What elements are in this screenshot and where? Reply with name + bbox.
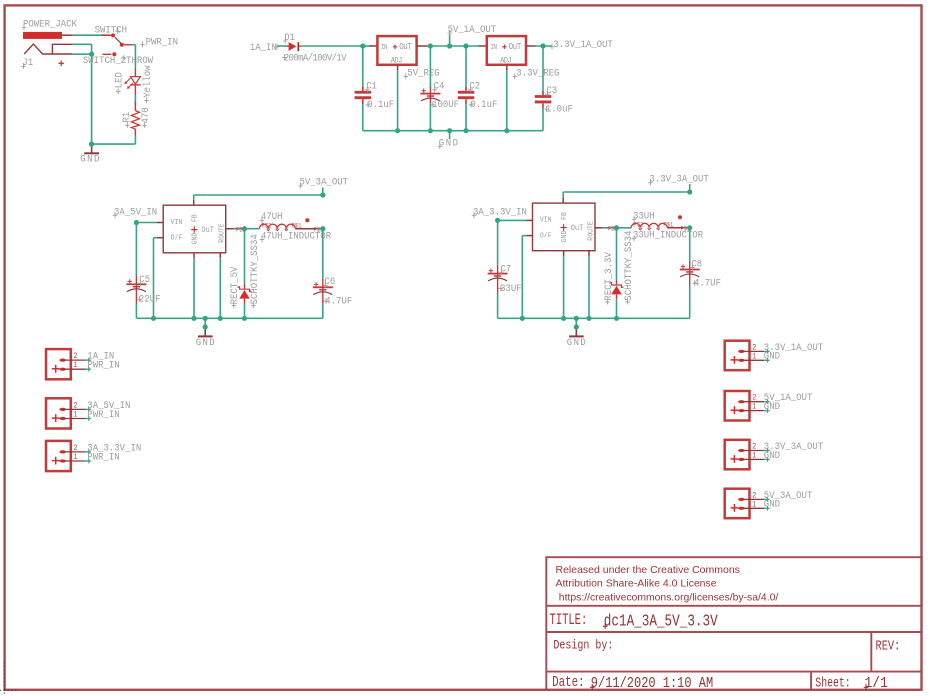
node B junction bbox=[428, 43, 433, 48]
connector J8 5V_3A_OUT bbox=[725, 489, 750, 519]
svg-text:2: 2 bbox=[73, 445, 78, 454]
svg-text:ROUTE: ROUTE bbox=[587, 221, 596, 240]
svg-text:4.7UF: 4.7UF bbox=[325, 295, 352, 307]
svg-text:ROUTE: ROUTE bbox=[218, 223, 227, 242]
op-amp U2 3.3V regulator box bbox=[487, 36, 526, 65]
wire jack sleeve top bbox=[73, 43, 92, 45]
svg-text:OuT: OuT bbox=[201, 227, 214, 236]
wire C2 column top bbox=[465, 46, 467, 87]
svg-text:O/F: O/F bbox=[171, 234, 183, 243]
node 3.3V_1A_OUT junction bbox=[540, 43, 545, 48]
svg-text:IN: IN bbox=[490, 44, 497, 52]
transistor U3 buck pin VIN bbox=[157, 222, 163, 224]
wire U3 gnd to rail bbox=[193, 258, 195, 318]
svg-text:1: 1 bbox=[752, 452, 757, 461]
svg-text:Design by:: Design by: bbox=[553, 640, 613, 653]
svg-text:9/11/2020 1:10 AM: 9/11/2020 1:10 AM bbox=[591, 676, 713, 693]
jack plus polarity mark bbox=[59, 61, 64, 66]
wire onoff to rail bbox=[154, 237, 158, 239]
wire C3 column top bbox=[542, 46, 544, 91]
wire U4 route to rail bbox=[588, 256, 590, 318]
node U4 onoff rail junction bbox=[520, 316, 525, 321]
svg-text:ADJ: ADJ bbox=[500, 57, 511, 66]
connector J7 3.3V_3A_OUT bbox=[725, 440, 750, 470]
svg-text:P$2: P$2 bbox=[633, 221, 643, 229]
LED arrows bbox=[125, 78, 133, 88]
ground symbol GND section1 bbox=[91, 147, 93, 154]
svg-text:RECT_3.3V: RECT_3.3V bbox=[602, 252, 614, 301]
capacitor C1 bbox=[362, 87, 364, 91]
svg-text:2: 2 bbox=[73, 353, 78, 362]
svg-text:GND: GND bbox=[764, 449, 780, 461]
node gnd rail junction section4 bbox=[574, 316, 579, 321]
LED D2 symbol bbox=[134, 68, 136, 77]
power jack J1 pin bbox=[62, 34, 73, 36]
svg-text:SCHOTTKY_SS34: SCHOTTKY_SS34 bbox=[622, 230, 634, 300]
node GND rail junction bbox=[447, 128, 452, 133]
svg-text:PWR_IN: PWR_IN bbox=[87, 451, 119, 463]
op-amp U1 5V regulator box bbox=[377, 36, 416, 65]
wire switch to pwr_in corner bbox=[132, 44, 136, 46]
svg-text:Released under the Creative Co: Released under the Creative Commons bbox=[556, 564, 740, 576]
svg-text:GND: GND bbox=[764, 498, 780, 510]
connector J3 3A_5V_IN bbox=[46, 398, 71, 428]
capacitor C7 polarized bbox=[497, 265, 499, 293]
svg-text:dc1A_3A_5V_3.3V: dc1A_3A_5V_3.3V bbox=[604, 613, 718, 631]
svg-text:0.1uF: 0.1uF bbox=[470, 98, 497, 110]
wire R1 to gnd rail bbox=[134, 136, 136, 145]
svg-text:Attribution Share-Alike 4.0 Li: Attribution Share-Alike 4.0 License bbox=[556, 578, 717, 590]
wire in to U4 VIN bbox=[498, 219, 527, 221]
svg-text:Sheet:: Sheet: bbox=[815, 675, 850, 691]
svg-text:SCHOTTKY_SS34: SCHOTTKY_SS34 bbox=[248, 234, 260, 304]
wire pwr_in down to LED bbox=[134, 45, 136, 68]
svg-text:5V_1A_OUT: 5V_1A_OUT bbox=[448, 23, 497, 35]
node gnd rail junction section3 bbox=[203, 316, 208, 321]
svg-text:2: 2 bbox=[752, 492, 757, 501]
svg-text:33UH_INDUCTOR: 33UH_INDUCTOR bbox=[633, 229, 703, 241]
svg-text:GND: GND bbox=[764, 400, 780, 412]
wire U3 route to rail bbox=[219, 258, 221, 318]
svg-text:REV:: REV: bbox=[876, 638, 901, 654]
svg-text:2: 2 bbox=[752, 443, 757, 452]
svg-text:5V_REG: 5V_REG bbox=[407, 67, 439, 79]
transistor U4 pin OUT bbox=[595, 227, 603, 229]
svg-text:200mA/100V/1V: 200mA/100V/1V bbox=[284, 52, 347, 64]
wire jack bottom bbox=[73, 53, 92, 55]
svg-text:SWITCH: SWITCH bbox=[95, 24, 127, 36]
svg-text:OuT: OuT bbox=[399, 43, 412, 53]
svg-text:GND: GND bbox=[764, 350, 780, 362]
svg-text:PWR_IN: PWR_IN bbox=[146, 36, 178, 48]
ground symbol GND section4 bbox=[575, 327, 577, 336]
svg-text:https://creativecommons.org/li: https://creativecommons.org/licenses/by-… bbox=[559, 593, 779, 604]
svg-text:2: 2 bbox=[752, 394, 757, 403]
wire node A to U1 bbox=[363, 45, 371, 47]
node U4 route rail junction bbox=[586, 316, 591, 321]
svg-text:22UF: 22UF bbox=[139, 293, 161, 305]
svg-text:P$2: P$2 bbox=[262, 222, 272, 230]
wire C5 column bottom bbox=[135, 304, 137, 319]
power jack J1 barrel bbox=[23, 32, 62, 39]
op-amp U1 pin OUT bbox=[417, 45, 428, 47]
op-amp U1 5V regulator pin IN bbox=[370, 45, 378, 47]
svg-text:1: 1 bbox=[73, 362, 78, 371]
svg-text:1.0uF: 1.0uF bbox=[546, 103, 573, 115]
wire diode to rail 2 bbox=[616, 299, 618, 318]
transistor U3 buck box bbox=[163, 205, 226, 253]
wire jack sleeve right bbox=[91, 44, 93, 54]
svg-text:3A_5V_IN: 3A_5V_IN bbox=[114, 206, 157, 218]
transistor U3 pin GND bbox=[193, 253, 195, 258]
node switch node junction 2 bbox=[614, 225, 619, 230]
svg-text:2: 2 bbox=[752, 344, 757, 353]
svg-text:PWR_IN: PWR_IN bbox=[87, 359, 119, 371]
wire U2 ADJ to rail bbox=[506, 70, 508, 130]
svg-text:4.7UF: 4.7UF bbox=[694, 277, 721, 289]
wire 1A_IN to D1 bbox=[278, 45, 288, 47]
node U3 gnd rail junction bbox=[191, 316, 196, 321]
transistor U3 pin ONOFF bbox=[157, 237, 163, 239]
power jack J1 contact outline bbox=[24, 44, 72, 54]
svg-text:1: 1 bbox=[752, 501, 757, 510]
wire diode column top 2 bbox=[616, 228, 618, 280]
transistor U4 pin FB bbox=[562, 198, 564, 204]
wire C1 column bottom bbox=[362, 104, 364, 131]
node gnd corner junction bbox=[89, 142, 94, 147]
wire C1 column top bbox=[362, 46, 364, 87]
svg-text:470: 470 bbox=[139, 107, 151, 123]
wire gnd sym stub section4 bbox=[575, 318, 577, 327]
svg-text:3A_3.3V_IN: 3A_3.3V_IN bbox=[473, 206, 527, 218]
svg-text:33UF: 33UF bbox=[500, 282, 522, 294]
op-amp U2 pin ADJ bbox=[506, 65, 508, 71]
svg-text:0.1uF: 0.1uF bbox=[367, 98, 394, 110]
node out column junction 2 bbox=[687, 225, 692, 230]
capacitor C8 polarized bbox=[689, 261, 691, 286]
wire U4 FB up and across bbox=[562, 192, 564, 198]
svg-text:O/F: O/F bbox=[540, 232, 552, 241]
inductor unconnected pin dot 2 bbox=[678, 215, 682, 219]
node C junction bbox=[463, 43, 468, 48]
transistor U3 pin FB bbox=[193, 200, 195, 206]
switch S1 lever bbox=[115, 37, 121, 43]
wire FB up and across bbox=[193, 195, 195, 200]
transistor U4 pin GND bbox=[563, 251, 565, 257]
capacitor C3 bbox=[542, 91, 544, 95]
svg-text:5V_3A_OUT: 5V_3A_OUT bbox=[300, 176, 349, 188]
wire U4 onoff to rail bbox=[522, 235, 526, 237]
wire sleeve to gnd corner bbox=[91, 54, 93, 144]
svg-text:FB: FB bbox=[561, 212, 570, 220]
transistor U4 pin ONOFF bbox=[527, 235, 533, 237]
node onoff rail junction bbox=[151, 316, 156, 321]
op-amp U1 pin ADJ bbox=[397, 65, 399, 71]
wire gnd rail section3 bbox=[136, 317, 322, 319]
svg-text:IN: IN bbox=[381, 44, 388, 52]
node C2 rail junction bbox=[463, 128, 468, 133]
node ADJ2 rail junction bbox=[504, 128, 509, 133]
wire stub 5V_3A_OUT label bbox=[322, 188, 324, 196]
svg-text:1: 1 bbox=[73, 411, 78, 420]
wire gnd rail section2 bbox=[363, 130, 543, 132]
node diode rail junction 2 bbox=[614, 316, 619, 321]
node 5V_3A_OUT junction top bbox=[320, 192, 325, 197]
svg-text:OuT: OuT bbox=[509, 43, 522, 53]
svg-text:100UF: 100UF bbox=[432, 98, 459, 110]
svg-text:1/1: 1/1 bbox=[865, 675, 888, 692]
wire U1 ADJ to rail bbox=[397, 70, 399, 130]
svg-text:3.3V_1A_OUT: 3.3V_1A_OUT bbox=[554, 38, 613, 50]
node 3A_3.3V_IN junction bbox=[495, 218, 500, 223]
svg-text:TITLE:: TITLE: bbox=[550, 612, 588, 630]
node 3.3V_3A_OUT junction top bbox=[687, 189, 692, 194]
wire U4 out to inductor bbox=[603, 227, 631, 229]
node U4 gnd rail junction bbox=[561, 316, 566, 321]
wire in to U3 VIN bbox=[136, 222, 157, 224]
node 5V_1A_OUT junction bbox=[447, 43, 452, 48]
svg-text:GND: GND bbox=[561, 231, 570, 243]
svg-text:VIN: VIN bbox=[171, 218, 183, 227]
wire C2 column bottom bbox=[465, 104, 467, 131]
wire GND label stub bbox=[449, 131, 451, 139]
svg-text:1: 1 bbox=[752, 353, 757, 362]
switch S1 lower throw bbox=[102, 53, 111, 55]
svg-text:OuT: OuT bbox=[571, 225, 584, 234]
svg-text:1A_IN: 1A_IN bbox=[250, 41, 277, 53]
wire LED to R1 bbox=[134, 95, 136, 101]
wire C3 column bottom bbox=[542, 108, 544, 131]
transistor U3 pin OUT bbox=[226, 228, 234, 230]
wire diode column top bbox=[244, 229, 246, 284]
svg-text:3.3V_3A_OUT: 3.3V_3A_OUT bbox=[650, 173, 709, 185]
svg-text:R1: R1 bbox=[121, 112, 133, 123]
wire diode to rail bbox=[244, 304, 246, 319]
node U3 route rail junction bbox=[218, 316, 223, 321]
svg-text:GND: GND bbox=[567, 336, 587, 348]
diode D4 RECT_3.3V schottky bbox=[616, 280, 618, 285]
wire C6 column bottom bbox=[322, 304, 324, 319]
svg-text:1: 1 bbox=[752, 403, 757, 412]
inductor unconnected pin dot bbox=[305, 218, 309, 222]
node jack sleeve junction bbox=[89, 52, 94, 57]
svg-text:GND: GND bbox=[191, 233, 200, 245]
svg-text:GND: GND bbox=[196, 336, 216, 348]
node A junction bbox=[360, 43, 365, 48]
page corner crop marks bbox=[0, 662, 17, 696]
wire inductor to out column bbox=[295, 228, 317, 230]
wire D1 to node A bbox=[301, 45, 363, 47]
wire U2 out to label bbox=[535, 45, 552, 47]
svg-text:2: 2 bbox=[73, 402, 78, 411]
wire C8 column bottom bbox=[689, 286, 691, 319]
svg-text:3.3V_REG: 3.3V_REG bbox=[516, 67, 559, 79]
node 3A_5V_IN junction bbox=[134, 220, 139, 225]
connector J6 5V_1A_OUT bbox=[725, 391, 750, 421]
node C4 rail junction bbox=[428, 128, 433, 133]
wire inductor to out column 2 bbox=[667, 227, 684, 229]
svg-text:ADJ: ADJ bbox=[391, 57, 402, 66]
svg-text:Date:: Date: bbox=[552, 674, 584, 691]
capacitor C4 polarized bbox=[429, 87, 431, 103]
svg-text:PWR_IN: PWR_IN bbox=[87, 408, 119, 420]
node switch node junction bbox=[242, 226, 247, 231]
wire stub 5V_1A_OUT label bbox=[449, 34, 451, 46]
transistor U4 buck pin VIN bbox=[527, 219, 533, 221]
svg-text:Yellow: Yellow bbox=[141, 65, 153, 97]
ground symbol GND section3 bbox=[204, 327, 206, 336]
diode D1 bbox=[287, 45, 289, 47]
svg-text:GND: GND bbox=[80, 153, 101, 165]
wire C4 column top bbox=[429, 46, 431, 87]
svg-text:VIN: VIN bbox=[540, 216, 552, 225]
wire C7 column bottom bbox=[497, 293, 499, 318]
wire C8 column top bbox=[689, 228, 691, 261]
capacitor C2 bbox=[465, 87, 467, 91]
connector J5 3.3V_1A_OUT bbox=[725, 341, 750, 371]
wire C6 column top bbox=[322, 229, 324, 279]
svg-text:FB: FB bbox=[191, 214, 200, 222]
wire stub 3.3V_3A_OUT label bbox=[689, 184, 691, 192]
node out column junction bbox=[320, 226, 325, 231]
svg-text:LED: LED bbox=[113, 72, 125, 88]
resistor R1 bbox=[134, 101, 136, 111]
wire C4 column bottom bbox=[429, 103, 431, 131]
node diode rail junction bbox=[242, 316, 247, 321]
transistor U3 pin ROUTE bbox=[219, 253, 221, 258]
connector J2 1A_IN bbox=[46, 349, 71, 379]
wire out to inductor bbox=[234, 228, 260, 230]
svg-text:RECT_5V: RECT_5V bbox=[229, 267, 241, 305]
wire C5 column top bbox=[135, 223, 137, 276]
wire U4 gnd to rail bbox=[563, 256, 565, 318]
transistor U4 buck box bbox=[533, 203, 596, 251]
op-amp U2 pin OUT bbox=[526, 45, 536, 47]
switch S1 common contact bbox=[120, 43, 124, 47]
wire gnd sym stub section3 bbox=[204, 318, 206, 327]
wire gnd rail section4 bbox=[498, 317, 690, 319]
wire jack to switch bbox=[73, 34, 111, 36]
wire U1 out to U2 in bbox=[428, 45, 480, 47]
capacitor C5 polarized bbox=[135, 276, 137, 304]
transistor U4 pin ROUTE bbox=[588, 251, 590, 257]
svg-text:SWITCH_2THROW: SWITCH_2THROW bbox=[83, 55, 153, 67]
svg-text:1: 1 bbox=[73, 454, 78, 463]
capacitor C6 polarized bbox=[322, 279, 324, 304]
op-amp U2 3.3V regulator pin IN bbox=[479, 45, 487, 47]
inductor L2 33UH bbox=[631, 223, 667, 228]
inductor L1 47UH bbox=[259, 224, 295, 228]
switch S1 top contact bbox=[101, 34, 111, 36]
connector J4 3A_3.3V_IN bbox=[46, 441, 71, 471]
title block outline bbox=[546, 557, 921, 689]
svg-text:POWER_JACK: POWER_JACK bbox=[23, 18, 77, 30]
node ADJ1 rail junction bbox=[395, 128, 400, 133]
diode D3 RECT_5V schottky bbox=[244, 284, 246, 289]
wire C7 column top bbox=[497, 220, 499, 264]
